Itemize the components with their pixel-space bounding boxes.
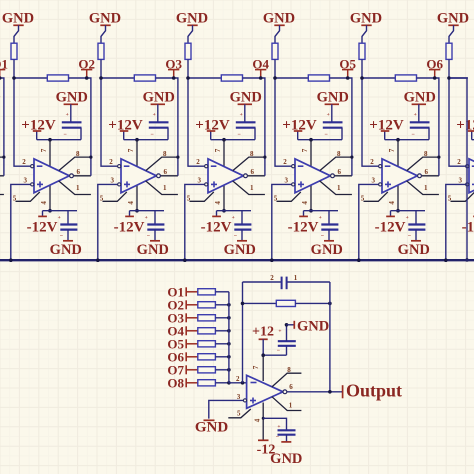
svg-text:1: 1 <box>294 274 298 282</box>
svg-text:+: + <box>278 329 281 335</box>
svg-text:3: 3 <box>237 393 241 401</box>
svg-text:O6: O6 <box>426 56 443 71</box>
svg-text:-12: -12 <box>257 443 276 458</box>
svg-text:GND: GND <box>297 319 329 335</box>
svg-text:4: 4 <box>253 418 261 422</box>
svg-text:O2: O2 <box>78 56 95 71</box>
svg-text:O1: O1 <box>0 56 8 71</box>
svg-text:−: − <box>276 435 280 441</box>
svg-text:5: 5 <box>237 410 241 418</box>
svg-text:2: 2 <box>236 375 240 383</box>
svg-text:Output: Output <box>346 380 402 400</box>
svg-text:−: − <box>277 348 281 354</box>
svg-text:6: 6 <box>289 383 293 391</box>
svg-text:7: 7 <box>252 365 260 369</box>
svg-text:+: + <box>277 424 280 430</box>
svg-text:8: 8 <box>287 366 291 374</box>
svg-text:O5: O5 <box>339 56 356 71</box>
svg-text:2: 2 <box>270 274 274 282</box>
svg-text:GND: GND <box>195 420 229 436</box>
svg-text:1: 1 <box>289 402 293 410</box>
svg-text:O8: O8 <box>167 375 184 390</box>
svg-text:O4: O4 <box>252 56 269 71</box>
svg-text:+12: +12 <box>252 324 274 339</box>
svg-text:O3: O3 <box>165 56 182 71</box>
